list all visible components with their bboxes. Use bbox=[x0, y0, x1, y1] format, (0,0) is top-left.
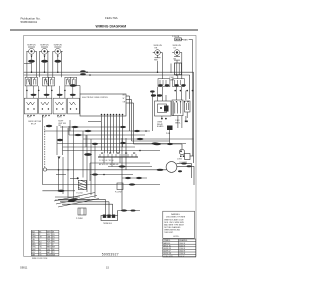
svg-text:RDW: RDW bbox=[47, 254, 51, 256]
svg-text:CONV. MTR: CONV. MTR bbox=[163, 256, 173, 258]
svg-text:SURF.UN: SURF.UN bbox=[40, 44, 49, 46]
svg-text:59953927: 59953927 bbox=[102, 253, 119, 257]
svg-text:FEFL79A: FEFL79A bbox=[105, 16, 118, 20]
svg-text:1 2 3 4 5 6 7 8 9 10: 1 2 3 4 5 6 7 8 9 10 bbox=[99, 160, 114, 162]
svg-text:WAR: WAR bbox=[183, 39, 188, 42]
svg-text:THIS UNIT.: THIS UNIT. bbox=[164, 232, 174, 234]
svg-text:S9811: S9811 bbox=[20, 266, 28, 270]
svg-text:WIRING DIAGRAM: WIRING DIAGRAM bbox=[96, 24, 127, 28]
svg-text:RW: RW bbox=[52, 254, 55, 256]
svg-text:BK W R OR Y BU BR GN: BK W R OR Y BU BR GN bbox=[99, 164, 119, 166]
svg-text:WHT: WHT bbox=[32, 249, 36, 251]
svg-text:YEL: YEL bbox=[32, 239, 35, 241]
svg-text:NT: NT bbox=[52, 252, 54, 254]
svg-text:ELECTRONIC OVEN CONTROL: ELECTRONIC OVEN CONTROL bbox=[82, 97, 108, 99]
svg-text:CONV: CONV bbox=[177, 159, 183, 161]
svg-text:MEANING: MEANING bbox=[179, 239, 188, 242]
svg-text:-NOTE-: -NOTE- bbox=[173, 236, 180, 238]
svg-text:SURF.UN: SURF.UN bbox=[54, 44, 63, 46]
svg-text:P-CONV: P-CONV bbox=[115, 192, 122, 194]
svg-text:BOARD: BOARD bbox=[157, 125, 164, 128]
svg-text:P-LOCK: P-LOCK bbox=[77, 193, 84, 195]
svg-text:TERM BLK: TERM BLK bbox=[103, 223, 113, 225]
svg-text:400 W: 400 W bbox=[179, 256, 184, 258]
svg-text:P-TERM: P-TERM bbox=[76, 218, 83, 220]
svg-text:RF-LF: RF-LF bbox=[31, 124, 37, 126]
svg-text:5995392041: 5995392041 bbox=[21, 20, 38, 24]
svg-text:LB: LB bbox=[52, 249, 54, 251]
svg-text:WIRE COLOR CODE: WIRE COLOR CODE bbox=[32, 258, 47, 260]
svg-text:DISCONNECT POWER: DISCONNECT POWER bbox=[166, 216, 186, 218]
svg-text:P-RR: P-RR bbox=[57, 117, 62, 119]
svg-text:WHT: WHT bbox=[47, 231, 51, 233]
svg-text:BAKE EL: BAKE EL bbox=[163, 242, 170, 245]
svg-text:SURF.UN: SURF.UN bbox=[27, 44, 36, 46]
svg-text:RED: RED bbox=[154, 60, 159, 62]
